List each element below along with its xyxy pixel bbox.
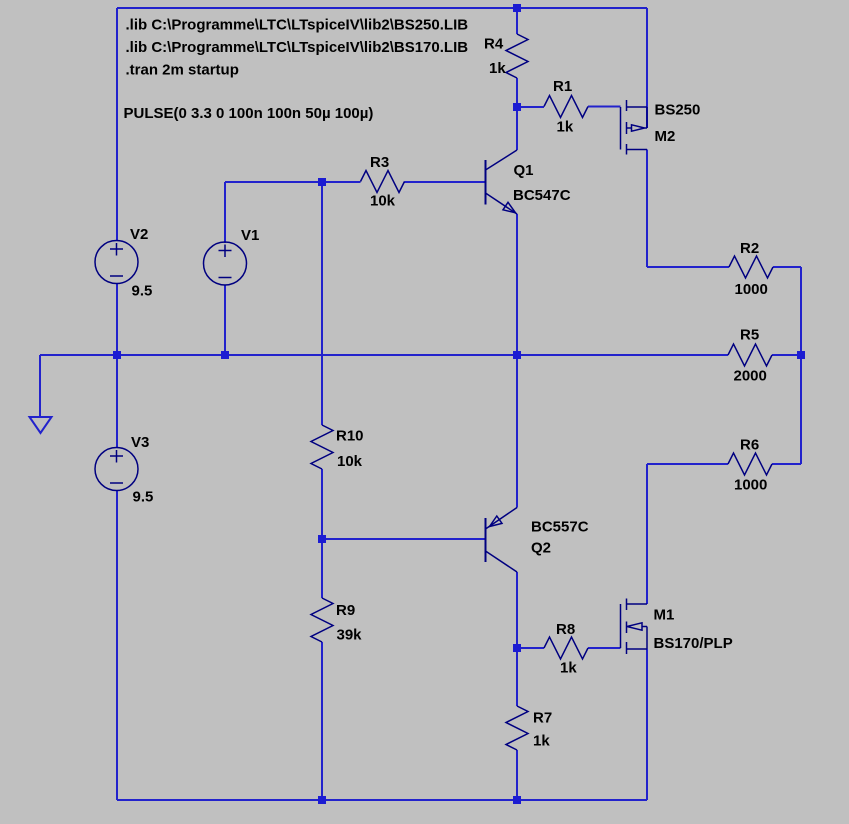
wire mid rail (40, 354, 728, 356)
transistor M1 (621, 599, 733, 655)
node junction R4/R1/Q1 (513, 103, 521, 111)
svg-text:R5: R5 (740, 327, 759, 344)
svg-text:Q2: Q2 (531, 540, 551, 557)
wire R8 left lead (517, 647, 544, 649)
voltage source V3 (95, 434, 153, 506)
svg-text:.lib C:\Programme\LTC\LTspiceI: .lib C:\Programme\LTC\LTspiceIV\lib2\BS2… (126, 17, 469, 34)
svg-text:1k: 1k (533, 733, 550, 750)
node junction R8/R7/Q2 (513, 644, 521, 652)
wire V3 to bottom rail (116, 490, 118, 800)
node junction R9 / bottom rail (318, 796, 326, 804)
wire R6 left lead (647, 463, 728, 465)
wire M1 drain vertical (646, 464, 648, 604)
svg-text:R4: R4 (484, 36, 504, 53)
resistor R6 (728, 437, 772, 494)
svg-text:1000: 1000 (734, 477, 767, 494)
wire Q2 base rail (322, 538, 486, 540)
wire base rail left (225, 181, 361, 183)
svg-text:R7: R7 (533, 710, 552, 727)
resistor R1 (544, 78, 588, 136)
svg-text:M2: M2 (655, 128, 676, 145)
wire R2 left lead (647, 266, 729, 268)
svg-text:R9: R9 (336, 602, 355, 619)
svg-text:PULSE(0 3.3 0 100n 100n 50µ 10: PULSE(0 3.3 0 100n 100n 50µ 100µ) (124, 105, 374, 122)
voltage source V2 (95, 226, 152, 300)
resistor R7 (506, 706, 552, 750)
svg-text:1k: 1k (557, 119, 574, 136)
voltage source V1 (204, 227, 260, 285)
wire R1 to M2 gate (588, 106, 621, 108)
svg-text:1000: 1000 (735, 281, 768, 298)
wire R7 top lead (516, 648, 518, 706)
wire ground stub (39, 355, 41, 417)
svg-text:V3: V3 (131, 434, 149, 451)
wire R9 to bottom (321, 642, 323, 800)
wire V1 top (224, 182, 226, 243)
svg-text:R1: R1 (553, 78, 572, 95)
resistor R9 (311, 598, 362, 644)
resistor R2 (729, 240, 773, 298)
wire base rail right (405, 181, 486, 183)
svg-text:1k: 1k (560, 660, 577, 677)
svg-text:R3: R3 (370, 154, 389, 171)
ground (30, 417, 52, 433)
wire top rail (117, 7, 647, 9)
node junction R7 / bottom rail (513, 796, 521, 804)
wire V1 bottom (224, 285, 226, 355)
wire R2 right lead (773, 266, 801, 268)
svg-text:V1: V1 (241, 227, 259, 244)
svg-text:BS250: BS250 (655, 102, 701, 119)
svg-text:Q1: Q1 (514, 162, 534, 179)
node junction V2 / mid rail (113, 351, 121, 359)
node junction emitters / mid rail (513, 351, 521, 359)
wire right rail (800, 267, 802, 464)
transistor Q2 (486, 508, 589, 573)
wire R10 column top (321, 182, 323, 425)
svg-text:9.5: 9.5 (132, 283, 153, 300)
svg-text:.tran 2m startup: .tran 2m startup (126, 62, 239, 79)
resistor R10 (311, 425, 364, 470)
wire M2 drain vertical (646, 150, 648, 268)
transistor Q1 (486, 150, 571, 214)
svg-text:R10: R10 (336, 428, 364, 445)
wire R10 to R9 (321, 469, 323, 598)
wire Q1 emitter vertical (516, 214, 518, 355)
wire R8 to M1 gate (588, 647, 621, 649)
svg-text:9.5: 9.5 (133, 489, 154, 506)
wire mid rail right of R5 (772, 354, 801, 356)
svg-text:R8: R8 (556, 621, 575, 638)
svg-text:10k: 10k (337, 453, 363, 470)
wire mid rail to V3 (116, 355, 118, 448)
svg-text:39k: 39k (337, 627, 363, 644)
wire bottom rail (117, 799, 647, 801)
svg-text:2000: 2000 (734, 368, 767, 385)
svg-text:.lib C:\Programme\LTC\LTspiceI: .lib C:\Programme\LTC\LTspiceIV\lib2\BS1… (126, 39, 469, 56)
node junction R4 top (513, 4, 521, 12)
wire R1 left lead (517, 106, 544, 108)
svg-text:V2: V2 (130, 226, 148, 243)
transistor M2 (621, 100, 701, 155)
svg-text:M1: M1 (654, 607, 675, 624)
wire R4 top lead (516, 8, 518, 34)
svg-text:R2: R2 (740, 240, 759, 257)
resistor R5 (728, 327, 772, 385)
svg-text:10k: 10k (370, 193, 396, 210)
resistor R3 (361, 154, 405, 210)
wire R6 right lead (772, 463, 801, 465)
wire left rail upper (116, 8, 118, 241)
wire Q2 collector vertical (516, 572, 518, 648)
svg-text:BS170/PLP: BS170/PLP (654, 635, 733, 652)
resistor R4 (484, 34, 528, 78)
resistor R8 (544, 621, 588, 677)
wire Q1 collector vertical (516, 107, 518, 150)
node junction base rail / R10 (318, 178, 326, 186)
wire Q2 emitter vertical (516, 355, 518, 508)
node junction V1 / mid rail (221, 351, 229, 359)
wire V2 to mid rail (116, 283, 118, 355)
wire M2 source vertical (646, 8, 648, 128)
svg-text:R6: R6 (740, 437, 759, 454)
wire R4 bottom lead (516, 78, 518, 107)
node junction R5 / right rail (797, 351, 805, 359)
svg-text:BC557C: BC557C (531, 519, 589, 536)
node junction Q2 base / divider (318, 535, 326, 543)
svg-text:BC547C: BC547C (513, 187, 571, 204)
svg-text:1k: 1k (489, 60, 506, 77)
wire M1 source vertical (646, 649, 648, 800)
wire R7 bottom lead (516, 750, 518, 800)
